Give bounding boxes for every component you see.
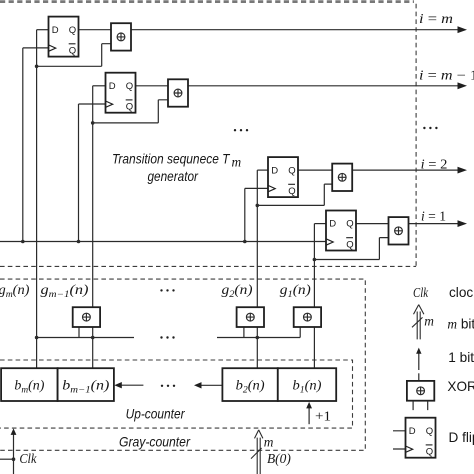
svg-text:Q: Q <box>126 102 133 113</box>
svg-text:XOR: XOR <box>447 379 474 394</box>
svg-text:Transition sequnece T: Transition sequnece T <box>112 151 231 166</box>
svg-text:i = m: i = m <box>419 11 453 26</box>
svg-text:D flip-flop: D flip-flop <box>449 430 474 445</box>
svg-text:Gray-counter: Gray-counter <box>119 434 190 449</box>
svg-text:clock: clock <box>449 285 474 300</box>
svg-text:gm​(n): gm​(n) <box>0 282 30 299</box>
svg-text:Clk: Clk <box>413 285 429 300</box>
svg-text:Q: Q <box>288 186 295 197</box>
svg-text:bm​(n): bm​(n) <box>14 378 45 395</box>
svg-text:+1: +1 <box>315 409 331 424</box>
svg-text:1 bit: 1 bit <box>448 350 474 365</box>
svg-text:Up-counter: Up-counter <box>126 406 185 421</box>
svg-text:Q: Q <box>69 45 76 56</box>
svg-text:b1​(n): b1​(n) <box>293 378 323 395</box>
svg-text:Q: Q <box>69 25 76 36</box>
svg-text:b2​(n): b2​(n) <box>236 378 266 395</box>
svg-text:D: D <box>409 426 416 437</box>
svg-text:m: m <box>264 434 274 449</box>
svg-text:D: D <box>329 219 336 230</box>
svg-text:generator: generator <box>148 169 199 184</box>
svg-text:i = 2: i = 2 <box>421 156 448 171</box>
svg-text:Q: Q <box>346 219 353 230</box>
svg-text:i = 1: i = 1 <box>421 209 446 224</box>
svg-text:Q: Q <box>288 165 295 176</box>
svg-text:Clk: Clk <box>19 451 37 466</box>
svg-text:m bits: m bits <box>447 316 474 331</box>
svg-text:D: D <box>52 25 59 36</box>
svg-text:Q: Q <box>126 81 133 92</box>
svg-text:D: D <box>109 81 116 92</box>
svg-text:Q: Q <box>346 239 353 250</box>
svg-text:Q: Q <box>426 447 433 458</box>
svg-text:m: m <box>232 155 242 170</box>
svg-text:g2​(n): g2​(n) <box>222 282 254 299</box>
svg-text:Q: Q <box>426 426 433 437</box>
svg-text:m: m <box>424 314 434 329</box>
svg-text:i = m − 1: i = m − 1 <box>419 68 474 83</box>
svg-text:D: D <box>271 165 278 176</box>
svg-text:g1​(n): g1​(n) <box>280 282 312 299</box>
svg-text:B(0): B(0) <box>267 451 291 466</box>
